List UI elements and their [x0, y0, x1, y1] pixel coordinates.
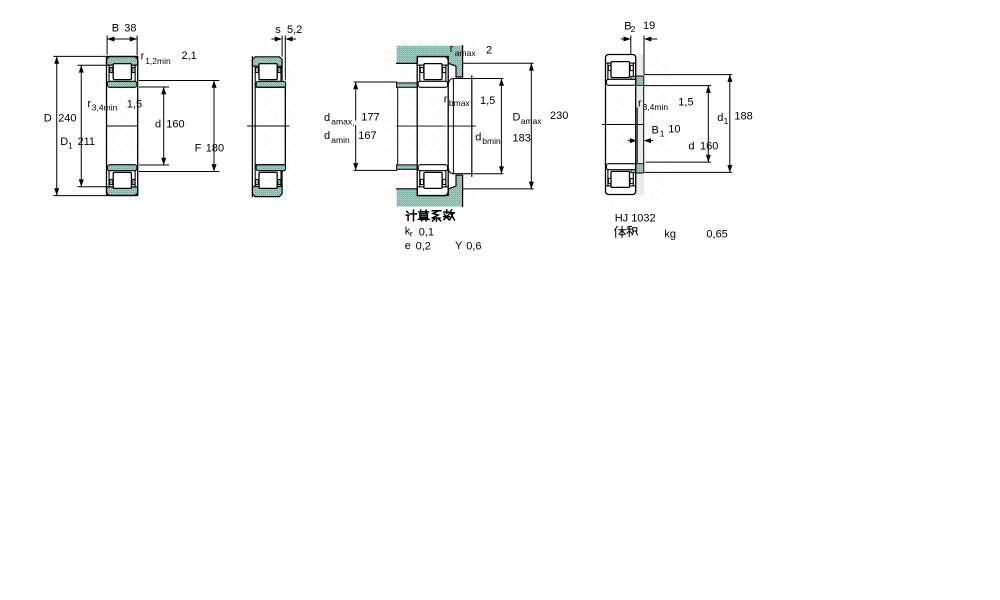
d1 dim ext lines — [644, 74, 731, 76]
cage blocks top — [256, 67, 259, 72]
svg-text:bmax: bmax — [449, 98, 471, 108]
B1 ext lines — [636, 108, 638, 163]
inner ring bar top — [606, 79, 636, 85]
section hatch background — [247, 44, 296, 200]
B dim line — [107, 38, 137, 40]
roller top — [259, 64, 277, 80]
svg-text:D: D — [60, 136, 68, 148]
outer band bottom edges top — [606, 62, 612, 64]
rb fillet bottom — [448, 169, 453, 174]
drawing hatch background — [600, 54, 668, 208]
svg-text:3,4min: 3,4min — [92, 103, 118, 113]
roller top — [113, 64, 131, 80]
shaft shoulder face line — [397, 87, 399, 165]
svg-text:0,1: 0,1 — [419, 226, 434, 238]
svg-text:d: d — [717, 112, 723, 124]
cage blocks bottom — [110, 179, 113, 184]
svg-text:0,2: 0,2 — [416, 241, 431, 253]
svg-text:d: d — [155, 119, 161, 131]
calculation-factors heading 计算系数 (CJK drawn) — [406, 210, 454, 221]
inner ring bar top — [418, 81, 448, 87]
svg-text:B: B — [112, 22, 119, 34]
flange line right top — [280, 66, 282, 81]
roller bottom — [424, 172, 442, 188]
svg-text:r: r — [410, 229, 413, 239]
svg-text:r: r — [87, 98, 91, 110]
axis line — [603, 124, 644, 126]
bearing outer boundary — [606, 55, 636, 195]
bearing outer boundary — [417, 57, 448, 196]
inner ring bar bottom — [418, 165, 448, 171]
svg-text:211: 211 — [78, 136, 96, 148]
svg-text:,: , — [352, 118, 354, 128]
cage outlines top — [608, 65, 611, 70]
svg-text:D: D — [513, 112, 521, 124]
s measure line outer face — [281, 36, 283, 56]
svg-text:188: 188 — [734, 111, 752, 123]
d1 dim line — [729, 75, 731, 173]
roller bottom — [259, 172, 277, 188]
volume label 体积 (CJK drawn) — [615, 226, 638, 237]
dbmin dim extension lines — [473, 78, 503, 80]
outer boundary — [107, 57, 138, 196]
svg-text:10: 10 — [668, 124, 680, 136]
outer ring bottom band — [252, 187, 282, 197]
inner ring bar bottom — [606, 164, 636, 170]
svg-text:amax: amax — [521, 116, 543, 126]
svg-text:d: d — [324, 112, 330, 124]
svg-text:amin: amin — [331, 135, 350, 145]
inner ring right face — [284, 87, 286, 164]
svg-text:1,5: 1,5 — [480, 95, 495, 107]
shaft shoulder sliver bottom — [397, 165, 418, 169]
svg-text:r: r — [141, 51, 145, 63]
D dim line — [56, 56, 58, 195]
svg-text:r: r — [444, 93, 448, 105]
svg-text:B: B — [652, 124, 659, 136]
figure 1: bearing cross-section NU design — [44, 22, 224, 195]
shaft shoulder bottom face — [453, 173, 472, 175]
svg-text:e: e — [405, 240, 411, 252]
inner ring bar top — [107, 81, 136, 87]
flange lines bottom — [419, 171, 421, 187]
inner ring left face — [254, 66, 256, 186]
B dim extension lines — [106, 36, 108, 54]
flange lines top — [607, 63, 609, 79]
svg-text:d: d — [324, 130, 330, 142]
inner ring bore top edge — [255, 86, 285, 88]
housing bottom (blue) — [397, 175, 463, 206]
outer ring top band — [107, 57, 138, 66]
flange line left bottom — [108, 171, 110, 187]
shaft shoulder top face — [453, 78, 472, 80]
cage outlines top — [420, 67, 423, 72]
bearing outline: outer band bottom edges bottom — [417, 186, 424, 188]
flange line right top — [134, 65, 136, 81]
roller bottom — [611, 171, 630, 187]
da dim extension lines — [354, 81, 397, 83]
F dim line — [213, 81, 215, 172]
svg-text:183: 183 — [513, 133, 531, 145]
rb fillet top — [448, 79, 453, 84]
svg-text:2: 2 — [631, 24, 636, 34]
svg-text:r: r — [450, 43, 454, 55]
d dim ext lines — [644, 85, 710, 87]
D1 dim line — [80, 65, 82, 186]
HJ angle ring bottom (blue) — [631, 164, 644, 173]
svg-text:r: r — [638, 98, 642, 110]
B2 dim arrows — [621, 38, 625, 40]
flange lines bottom — [607, 170, 609, 186]
svg-text:0,6: 0,6 — [466, 241, 481, 253]
figure 2: bearing side view with axial displacement s — [247, 24, 302, 200]
outer ring right face lower — [281, 171, 283, 187]
shaft shoulder sliver top — [397, 83, 418, 87]
housing top (blue) — [397, 46, 463, 77]
inner ring bar top — [256, 81, 286, 87]
svg-text:160: 160 — [166, 119, 184, 131]
svg-text:177: 177 — [361, 111, 379, 123]
axis line — [107, 125, 138, 127]
d dim line — [707, 86, 709, 163]
svg-text:1,5: 1,5 — [678, 97, 693, 109]
svg-text:amax: amax — [331, 116, 353, 126]
axis line — [248, 125, 290, 127]
svg-text:Y: Y — [455, 240, 463, 252]
bearing outline: outer band bottom edges top — [417, 64, 424, 66]
svg-text:2: 2 — [486, 44, 492, 56]
B1 dim arrows — [628, 140, 631, 142]
s dim arrows — [272, 38, 277, 40]
inner ring bar bottom — [107, 165, 136, 171]
flange lines top — [419, 65, 421, 81]
drawing hatch background — [388, 44, 478, 208]
outer ring top band — [252, 57, 282, 66]
svg-text:D: D — [44, 112, 52, 124]
roller top — [611, 62, 630, 78]
svg-text:kg: kg — [664, 228, 676, 240]
shaft right end face — [471, 76, 473, 176]
inner ring bore bottom edge — [255, 164, 285, 166]
section hatch background — [107, 57, 138, 196]
s measure line inner face — [284, 36, 286, 80]
svg-text:d: d — [475, 132, 481, 144]
cage blocks bottom — [256, 179, 259, 184]
svg-text:1: 1 — [724, 116, 729, 126]
svg-text:HJ 1032: HJ 1032 — [615, 212, 656, 224]
D1 dim extension lines — [78, 64, 107, 66]
D dim extension lines — [54, 55, 107, 57]
svg-text:1,5: 1,5 — [127, 99, 142, 111]
Damax dim line — [530, 63, 532, 189]
d dim extension lines — [139, 86, 168, 88]
svg-text:0,65: 0,65 — [706, 228, 727, 240]
figure 3: mounted bearing with abutment dimensions — [324, 43, 568, 253]
svg-text:230: 230 — [550, 110, 568, 122]
svg-text:bmin: bmin — [482, 136, 501, 146]
shaft step line inner — [452, 79, 454, 173]
shaft ghost gray band — [636, 54, 644, 195]
Damax dim extension lines — [463, 62, 533, 64]
outer ring left face — [251, 57, 253, 197]
figure 4: bearing with HJ angle ring — [600, 20, 753, 240]
svg-text:167: 167 — [358, 130, 376, 142]
cage outlines bottom — [420, 179, 423, 184]
svg-text:d: d — [688, 141, 694, 153]
svg-text:38: 38 — [124, 22, 136, 34]
flange line right bottom — [280, 171, 282, 187]
svg-text:1: 1 — [660, 128, 665, 138]
flange line left top — [108, 65, 110, 81]
HJ angle ring top (blue) — [631, 76, 644, 85]
dbmin dim line — [500, 79, 502, 174]
svg-text:s: s — [275, 24, 281, 36]
svg-text:19: 19 — [643, 20, 655, 32]
flange line right bottom — [134, 171, 136, 187]
roller top — [424, 64, 442, 80]
outer ring right face upper — [281, 66, 283, 79]
roller bottom — [113, 172, 131, 188]
cage outlines bottom — [608, 178, 611, 183]
da dim line — [355, 82, 357, 120]
outer band bottom edges bottom — [606, 185, 612, 187]
svg-text:180: 180 — [206, 143, 224, 155]
inner ring bar bottom — [256, 165, 286, 171]
F dim extension lines — [139, 80, 218, 82]
svg-text:2,1: 2,1 — [182, 50, 197, 62]
outer ring bottom band — [107, 187, 138, 196]
svg-text:1: 1 — [68, 140, 73, 150]
svg-text:160: 160 — [700, 140, 718, 152]
svg-text:5,2: 5,2 — [287, 24, 302, 36]
B2 ext lines — [630, 36, 632, 54]
svg-text:3,4min: 3,4min — [643, 102, 669, 112]
svg-text:1,2min: 1,2min — [145, 56, 171, 66]
svg-text:amax: amax — [455, 48, 477, 58]
svg-text:240: 240 — [58, 112, 76, 124]
cage blocks top — [110, 67, 113, 72]
svg-text:F: F — [195, 143, 202, 155]
axis dash-dot line — [397, 125, 443, 127]
d dim line — [163, 87, 165, 165]
